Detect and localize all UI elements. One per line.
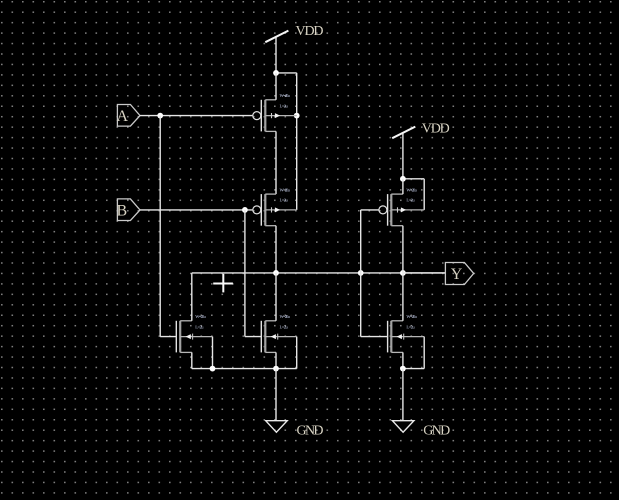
svg-text:L=2u: L=2u [406, 324, 415, 329]
junction node Y / M5 source / M6 drain [400, 270, 406, 276]
wire M4 bulk to rail [296, 337, 298, 369]
svg-text:W=20u: W=20u [280, 93, 291, 98]
wire net A down to NMOS M3 gate [160, 116, 176, 337]
svg-text:L=2u: L=2u [195, 324, 204, 329]
wire M6 drain to node Y [402, 273, 404, 321]
junction M4 source / rail / GND tap [273, 366, 279, 372]
wire rail to GND1 [275, 369, 277, 421]
value label W/L of M1 [280, 93, 291, 108]
wire inverter gate net [361, 210, 388, 337]
input pin B [117, 199, 141, 221]
wire M4 source to rail [275, 352, 277, 368]
svg-text:L=2u: L=2u [280, 324, 289, 329]
wire M3 bulk to rail [212, 337, 214, 369]
svg-text:A: A [117, 108, 129, 125]
wire M3 source to rail [191, 352, 193, 368]
output pin Y [445, 263, 473, 285]
wire M1 drain lead [275, 73, 277, 100]
wire net B: pin B to M2 gate [140, 209, 252, 211]
label VDD (net VDD1) [296, 24, 324, 39]
svg-text:W=20u: W=20u [280, 187, 291, 192]
wire net B down to NMOS M4 gate [245, 210, 261, 337]
ground symbol GND2 [392, 421, 414, 433]
wire VDD2 to M5 drain and bulk tie [403, 179, 424, 210]
svg-text:L=2u: L=2u [280, 198, 289, 203]
transistor M3 (NMOS, gate A) [176, 321, 212, 353]
value label W/L of M3 [195, 314, 206, 329]
wire NMOS source rail [192, 368, 297, 370]
power symbol VDD2 [392, 127, 415, 179]
wire node Y to output pin [403, 272, 446, 274]
wire NOR output node (to inverter input and Y driver) [192, 272, 446, 274]
svg-text:L=2u: L=2u [280, 103, 289, 108]
wire to GND2 [402, 369, 404, 421]
transistor M2 (PMOS, gate B, bottom of NOR stack) [253, 194, 297, 226]
power symbol VDD1 [265, 31, 288, 73]
junction M3 bulk / rail [210, 366, 216, 372]
transistor M1 (PMOS, gate A, top of NOR stack) [253, 100, 297, 132]
junction on net B [242, 207, 248, 213]
junction M6 source / GND2 [400, 366, 406, 372]
wire M6 bulk to rail2 [403, 337, 424, 369]
junction node / inverter gates [358, 270, 364, 276]
svg-text:W=20u: W=20u [280, 314, 291, 319]
value label W/L of M4 [280, 314, 291, 329]
svg-text:B: B [117, 202, 128, 219]
junction node / M2 source / M4 drain [273, 270, 279, 276]
label GND (net GND2) [423, 423, 450, 438]
junction on net A [157, 113, 163, 119]
junction at M1 bulk / VDD net [294, 113, 300, 119]
junction VDD2 / M5 drain [400, 176, 406, 182]
svg-text:W=20u: W=20u [406, 187, 417, 192]
svg-text:VDD: VDD [422, 122, 450, 137]
wire M6 source to GND tap [402, 352, 404, 368]
wire M4 drain to node [275, 273, 277, 321]
junction at VDD1 / M1 drain [273, 70, 279, 76]
wire M2 source to output node [275, 226, 277, 273]
wire M5 drain lead [402, 179, 404, 194]
marker cross [213, 274, 233, 293]
value label W/L of M6 [406, 314, 417, 329]
value label W/L of M2 [280, 187, 291, 202]
svg-text:GND: GND [297, 423, 324, 438]
svg-text:L=2u: L=2u [406, 198, 415, 203]
transistor M4 (NMOS, gate B) [261, 321, 296, 353]
wire M3 drain to node [191, 273, 193, 321]
transistor M6 (NMOS, inverter pull-down) [388, 321, 425, 353]
wire VDD1 to PMOS M1 drain and bulk tie [276, 73, 297, 210]
svg-text:W=20u: W=20u [195, 314, 206, 319]
wire M1 source to M2 drain [275, 131, 277, 194]
wire net A: pin A to M1 gate [140, 115, 252, 117]
input pin A [117, 105, 141, 127]
value label W/L of M5 [406, 187, 417, 202]
label VDD (net VDD2) [422, 122, 450, 137]
svg-text:Y: Y [451, 266, 463, 283]
label GND (net GND1) [297, 423, 324, 438]
ground symbol GND1 [266, 421, 288, 433]
wire M5 source to node Y [402, 226, 404, 273]
svg-text:VDD: VDD [296, 24, 324, 39]
svg-text:GND: GND [423, 423, 450, 438]
svg-text:W=20u: W=20u [406, 314, 417, 319]
transistor M5 (PMOS, inverter pull-up) [379, 194, 424, 226]
